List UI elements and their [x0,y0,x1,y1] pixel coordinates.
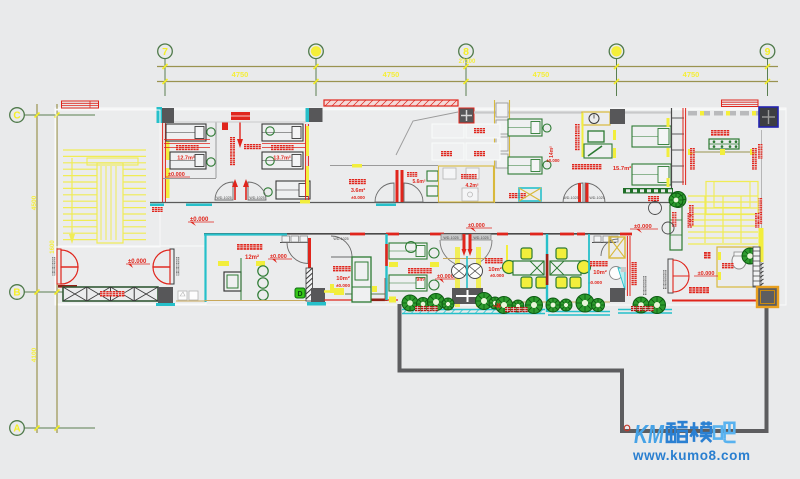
desk [584,144,612,158]
yellow hatch east wall [306,126,309,156]
knob sr a [429,248,439,258]
corridor cyan seg1 [150,204,164,207]
multi room bottom [205,300,310,302]
service rooms north wall [330,165,438,167]
column C8 cyan band [306,108,310,122]
bed room2 c [276,181,310,199]
zhiyin label [509,193,514,198]
fenzhen room [717,247,754,287]
grid bubble axis C [24,114,95,116]
plant waiting [670,192,686,208]
red jamb fan b [469,234,472,252]
fanroom yellow wall a [455,247,460,307]
round chair zs1 [578,261,591,274]
svg-text:9: 9 [765,46,771,58]
wall segment right of C10 [625,111,671,113]
corridor wall red seg [560,233,574,236]
red striped sign top-left [62,101,99,108]
column C9 [459,108,474,123]
door arc svc1 [375,183,394,202]
xinfeng label [474,151,479,156]
xiuxi2 label [485,258,490,263]
spine room red box [222,122,228,130]
right wall hatch [757,263,764,288]
plant on cabinet [669,193,683,207]
round chair zs2 [503,261,516,274]
column C11 blue [759,107,778,127]
lectern [224,272,241,291]
room2 label [271,145,276,150]
locker box 2 [496,120,508,134]
stool column [258,266,268,276]
left grid vertical line 2 [56,104,58,433]
corridor wall red seg [530,233,543,236]
column C7 cyan band [157,107,163,123]
red sign above beds [231,112,250,120]
svg-text:D: D [297,291,302,298]
multi room label [237,244,243,250]
svg-text:WD-1025: WD-1025 [563,196,578,200]
interior wall room1 [163,178,216,180]
corridor north wall [150,202,672,204]
paifeng label [441,151,446,156]
grid bubble axis 3 [616,59,618,97]
vtext fayao [632,262,637,267]
table zs1 [550,261,581,275]
right wall vtext a [758,144,762,148]
red hatched lintel strip [324,100,458,106]
plant [496,297,513,314]
center double door arc left [563,183,583,203]
watermark CJK [666,421,735,442]
display tick [750,149,755,155]
yellow dash corridorN 1 [352,164,362,168]
column B2 cyan band [307,302,326,306]
spine room vtext [230,137,235,142]
column B1 cyan band [156,303,175,306]
sinks [176,300,205,302]
toilet a [427,171,438,181]
fenzhen label [722,263,727,268]
fanroom tan line [443,258,492,260]
fan room panel a [432,124,464,138]
vip bottom red line [324,299,398,301]
jyf appliances [592,242,616,244]
water box hatch [519,188,541,201]
corridor wall red seg [497,233,508,236]
red jamb fan a [463,234,466,252]
svg-text:C: C [13,111,20,122]
svg-text:10m²: 10m² [336,275,350,282]
consult wall yellow [582,113,584,157]
fanroom yellow wall b [476,247,481,307]
bed room2 a [262,124,303,141]
corridor cyan seg3 [376,204,396,207]
chair zs2 a [521,248,532,259]
multi room top wall [204,233,287,235]
column C7 [162,108,174,123]
plant [633,297,649,313]
big bed r2a [632,126,671,147]
shuangren label [408,268,413,273]
display vtext left [690,148,695,153]
door arc fan big [440,240,466,266]
door tag right [176,257,179,260]
locker wall lines [494,100,496,203]
svg-text:5.6m²: 5.6m² [412,179,425,185]
knob room1 a [207,128,215,136]
red vtext door [575,124,580,129]
svg-text:12.7m²: 12.7m² [177,155,195,162]
plant [476,293,493,310]
plant [512,300,524,312]
svg-text:WD-1025: WD-1025 [443,236,458,240]
storefront glazing [688,111,762,116]
muying label [152,207,157,212]
fan b [468,264,483,279]
display vtext right [752,148,757,153]
column B2 [311,288,325,302]
bw hatch pillar [306,268,313,301]
yellow dash multi b [256,261,265,266]
display dim line [688,151,757,153]
clock box [582,112,610,125]
green bed r1a [508,119,542,136]
stairs west treads [63,150,146,240]
red arrow down [239,122,241,142]
svg-text:27100: 27100 [459,59,476,65]
bed frame red lines room2 [262,143,305,145]
wall segment mid [474,111,582,113]
gray bits [621,267,626,272]
svg-text:7: 7 [162,46,168,58]
locker box 3 [496,137,508,151]
svg-text:12m²: 12m² [245,254,259,261]
red wall east of room2 [305,124,307,203]
jyf dark box [610,288,625,302]
locker box 4 [496,154,508,168]
yellow dash vip2 [359,288,365,296]
plant [576,294,594,312]
multi door arc [287,243,308,264]
corridor wall red seg [386,233,399,236]
knob room2 c [264,188,272,196]
yellow dash consult [613,130,616,140]
vip yellow line [324,290,344,293]
big bed r2b [632,164,671,185]
plant [592,299,605,312]
svg-text:15.7m²: 15.7m² [613,165,631,172]
shuicaojian label [349,179,354,184]
stair hall outline [56,110,160,247]
corridor wall red seg [620,233,632,236]
right wall vtext b [758,198,763,203]
zhanshiqu label [711,130,717,136]
shower fixtures b [466,168,479,179]
fan room panel d [466,143,500,160]
green bed r1b [508,157,542,174]
jyf teal tri [618,268,625,290]
planter wall C [618,309,672,311]
svg-text:WD-1025: WD-1025 [589,196,604,200]
svg-text:4750: 4750 [232,70,249,79]
plant [417,298,430,311]
stair shaft top rail [87,158,138,165]
ladder strip [753,247,760,287]
svg-text:±0.000: ±0.000 [336,283,350,288]
svg-text:10m²: 10m² [488,266,502,273]
culture wall red line [672,300,757,302]
toilet b [427,186,438,196]
monitor [588,131,604,142]
vip chair [352,257,371,302]
corridor south wall [204,233,632,235]
section boundary polyline [400,304,767,431]
svg-text:14m²: 14m² [549,146,555,158]
yellow hatch west wall [166,125,170,160]
red wall x628 [626,236,628,296]
chair zs1 c [570,277,581,288]
multi appliances [280,242,308,244]
knob room2 a [266,127,274,135]
fenzhen yellow dash [718,252,721,260]
corridor wall red seg [430,233,444,236]
column B1 [158,287,173,303]
yellow box vip [389,297,396,303]
svg-text:4750: 4750 [533,70,550,79]
display cabinet [709,139,739,149]
corridor wall red seg [577,233,585,236]
corridor cyan seg2 [186,204,212,207]
yangsheng label [244,144,249,149]
top band inner wall line [174,121,306,123]
plant [526,297,543,314]
red bar x547 [546,254,549,285]
svg-text:1600: 1600 [50,240,56,254]
svg-text:±0.000: ±0.000 [351,195,365,200]
vip label [333,266,338,271]
wall x386 teal [385,234,387,300]
chair zs1 a [556,248,567,259]
rear door tag [663,270,666,273]
svg-text:KM: KM [634,419,665,449]
linyu label [461,174,466,179]
plant [489,297,501,309]
yellow dash multi a [218,261,229,266]
svg-text:3.6m²: 3.6m² [351,187,366,194]
knob room2 b [266,157,274,165]
ahu box [452,288,483,304]
plant [649,297,666,314]
rear door [668,259,673,293]
entrance mats [63,287,158,301]
stair shaft [97,163,123,243]
svg-text:±0.000: ±0.000 [546,158,560,163]
grid bubble axis 9 [767,59,769,97]
shower room frame [439,166,494,202]
stairs east [688,182,758,245]
red wall seg low [385,278,388,301]
door arc svc2 [404,183,423,202]
fan a [452,264,467,279]
right wall line [761,130,763,288]
multi room left wall [204,234,206,302]
planter label B [505,307,510,312]
shower tray [462,188,478,201]
plant [402,295,418,311]
svg-text:WD-1025: WD-1025 [249,196,264,200]
wall x386 red seg [385,244,388,266]
svg-text:4750: 4750 [383,70,400,79]
svg-text:WD-1025: WD-1025 [473,236,488,240]
zhenshi1 label [590,261,595,266]
display tick [688,149,693,155]
corridor wall red seg [350,233,365,236]
door arc bedroom left [215,182,233,200]
column C8 [309,108,323,122]
dimension line row1 [157,66,778,68]
bench [623,188,673,194]
wall x671 [671,108,673,202]
door lintel a [441,234,462,240]
planter wall B [548,311,610,313]
teal divider x467 [466,256,468,288]
center door jambs [578,183,581,202]
red deco marks [493,303,501,308]
jyf basin [610,267,623,280]
svg-text:B: B [13,288,20,299]
svg-text:13.7m²: 13.7m² [273,155,291,162]
knob room1 b [207,158,215,166]
svg-text:±0.000: ±0.000 [490,273,504,278]
stairs side vtext right [755,213,759,217]
yellow dashes x668 [667,118,670,127]
yellow dash corridorN 2 [300,200,310,204]
xia label [704,252,711,259]
yellow dash vip [330,284,334,293]
plant [560,299,572,311]
door lintel b [470,234,491,240]
wenhuaqiang label [689,287,695,293]
stairs side vtext left [688,213,692,217]
yellow X box [609,237,625,258]
wc label [407,172,412,177]
right wall yellow strip [759,228,764,262]
grid bubble axis 8 [465,59,467,97]
fan room panel c [432,143,464,160]
svg-text:WD-1025: WD-1025 [333,237,348,241]
chair zs2 b [521,277,532,288]
shuangren beds b [389,275,427,291]
fan room panel b [466,124,500,138]
multi green line [240,258,242,300]
red jamb svc [396,170,399,202]
teal wall x589 [588,234,590,302]
knob r1a [543,124,551,132]
plant [442,298,454,310]
wall ticks 671-685 [672,117,684,119]
red striped sign top-right [722,100,759,107]
grid bubble axis 7 [164,59,166,97]
grid bubble axis A [24,427,95,429]
entrance door left [57,249,78,284]
water cabinet [670,205,682,250]
left grid vertical line 1 [36,104,38,433]
plan paper area [55,108,786,305]
fan circle deco [406,242,417,253]
center double door arc right [585,183,605,203]
yellow wall stub [506,245,508,262]
vtext cabinet [672,212,676,216]
zhenjiu label [572,164,577,169]
shower fixtures a [443,168,456,179]
chair zs2 c [536,277,547,288]
bed room1 a [166,124,206,141]
locker box 1 [496,103,508,117]
mat label [100,291,106,297]
plan lower-left area [56,246,206,304]
green D badge [295,288,305,298]
planter tan line [495,301,610,303]
dimension line row2 [157,81,778,83]
door arc bedroom right [248,182,266,200]
svg-text:WD-1025: WD-1025 [216,196,231,200]
wall top edge [55,109,786,111]
red wall west [162,123,164,202]
room1 label [176,145,181,150]
svg-text:±0.000: ±0.000 [588,280,602,285]
svg-text:4500: 4500 [31,195,38,210]
yellow dash sr [389,262,398,267]
door arc vip [331,236,352,257]
fenzhen toilet [732,253,746,269]
red arrow up b [245,184,247,200]
column C10 [610,109,625,124]
dark red sill [58,285,77,288]
waiting circle [649,202,662,215]
knob sr b [429,280,439,290]
display tick [720,149,725,155]
denghou label [648,196,653,201]
plant [546,298,560,312]
vtext tijian [689,205,694,210]
red pillar strip [308,238,311,268]
vip frame lines [345,293,385,295]
chair zs1 b [556,277,567,288]
teal divider x547 [546,234,548,312]
svg-text:9m²: 9m² [417,277,426,283]
door tag jyf [643,276,646,279]
svg-text:10m²: 10m² [593,269,607,276]
daizhi label [474,128,479,133]
planter label A [415,306,420,311]
jyf door arc [601,239,618,256]
svg-text:4750: 4750 [683,70,700,79]
red arrow up a [234,184,236,200]
yellow dash vip3 [372,286,377,292]
bed frame red lines [164,139,210,141]
door tag left [52,257,55,260]
sink circle [662,222,674,234]
leader line [396,112,458,155]
small red circle [624,425,630,431]
entrance door right [153,249,174,284]
svg-text:www.kumo8.com: www.kumo8.com [632,448,751,463]
grid bubble axis 1 [315,59,317,97]
fenzhen plant [742,248,758,264]
red wall x684 [682,108,684,185]
knob r1b [543,161,551,169]
